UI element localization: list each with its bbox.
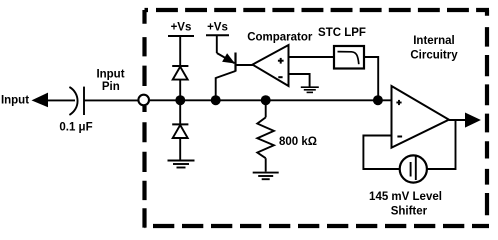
- svg-text:Input: Input: [96, 68, 124, 80]
- dashed boundary left edge upper: [142, 10, 146, 94]
- resistor R1 800k: [257, 100, 274, 172]
- wire: capacitor to input pin: [84, 99, 140, 101]
- lowpass response curve: [338, 52, 359, 65]
- svg-text:0.1 μF: 0.1 μF: [59, 121, 92, 133]
- wire: STC LPF output down to main net: [364, 57, 378, 100]
- pin -: buffer inverting: [397, 136, 402, 138]
- pin +: buffer noninverting: [396, 100, 401, 105]
- pin -: comparator inverting: [278, 76, 282, 78]
- svg-text:Comparator: Comparator: [247, 31, 313, 43]
- diode D2 (clamp to ground): [172, 100, 188, 160]
- svg-text:Shifter: Shifter: [391, 206, 428, 218]
- ground: below D2: [168, 161, 195, 168]
- svg-text:Internal: Internal: [413, 35, 455, 47]
- wire: level shifter to inverting input: [363, 136, 399, 170]
- ground: below resistor: [253, 173, 279, 180]
- capacitor C 0.1uF (curved plate): [69, 87, 77, 115]
- dashed boundary: internal circuitry box: [145, 10, 490, 228]
- wire: +Vs to diode D1: [179, 36, 181, 66]
- filter block STC LPF: [334, 46, 364, 69]
- wire: comparator output to transistor base: [236, 64, 254, 66]
- input pin circle: [138, 95, 149, 106]
- svg-text:STC LPF: STC LPF: [318, 27, 366, 39]
- node: junction diode branch: [175, 95, 185, 105]
- +Vs supply bar 1: [168, 35, 194, 37]
- svg-text:Pin: Pin: [102, 81, 120, 93]
- dashed boundary right edge: [485, 10, 489, 226]
- node: junction transistor collector: [211, 95, 221, 105]
- transistor Q1 (PNP clamp): [216, 53, 236, 101]
- diode D1 (clamp to +Vs): [172, 66, 188, 100]
- output arrow: [465, 113, 481, 128]
- svg-text:+Vs: +Vs: [171, 22, 192, 34]
- input arrow (pointing left): [32, 93, 49, 108]
- svg-text:+Vs: +Vs: [207, 22, 228, 34]
- dashed boundary top edge: [145, 8, 490, 12]
- wire: buffer output: [449, 119, 467, 121]
- +Vs supply bar 2: [206, 34, 229, 36]
- svg-text:Input: Input: [1, 95, 29, 107]
- wire: main horizontal net: [150, 99, 392, 101]
- wire: comparator + input from STC LPF: [289, 56, 335, 58]
- dashed boundary bottom edge: [145, 224, 490, 228]
- op-amp U2 output buffer: [392, 86, 449, 148]
- ground: comparator reference: [301, 87, 319, 92]
- svg-text:Circuitry: Circuitry: [410, 50, 458, 62]
- source V1: 145 mV level shifter (battery in circle): [400, 155, 427, 182]
- svg-text:145 mV Level: 145 mV Level: [369, 191, 442, 203]
- node: junction LPF / buffer input: [373, 95, 383, 105]
- node: junction resistor: [261, 95, 271, 105]
- wire: +Vs to transistor emitter: [216, 35, 218, 53]
- capacitor straight plate: [83, 87, 85, 115]
- svg-text:800 kΩ: 800 kΩ: [279, 136, 317, 148]
- wire: input lead to capacitor: [46, 99, 75, 101]
- wire: comparator - input to ground: [289, 74, 310, 87]
- dashed boundary left edge lower: [142, 106, 146, 228]
- wire: feedback from output down to level shifter: [427, 120, 456, 169]
- pin +: comparator noninverting: [278, 58, 284, 64]
- op-amp U1 comparator (points left): [253, 45, 289, 86]
